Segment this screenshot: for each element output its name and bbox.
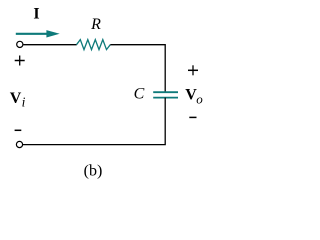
label Vi (input voltage) (10, 90, 26, 110)
wire top-right (110, 45, 165, 92)
label I (current) (33, 6, 39, 23)
wire top-left (23, 44, 76, 46)
caption (b) (84, 163, 103, 180)
svg-text:o: o (196, 91, 203, 106)
wire right-bottom (23, 98, 165, 145)
capacitor C (153, 92, 178, 97)
label C (134, 86, 145, 103)
resistor R (77, 40, 111, 50)
terminal top-left (17, 41, 23, 47)
polarity - (output) (189, 116, 196, 118)
svg-text:V: V (10, 90, 22, 107)
polarity + (output) (188, 65, 198, 75)
current arrow (16, 30, 60, 37)
svg-text:(b): (b) (84, 163, 103, 180)
polarity - (input) (15, 129, 22, 131)
svg-text:R: R (90, 16, 101, 33)
svg-text:i: i (22, 94, 26, 109)
label Vo (output voltage) (185, 87, 203, 107)
label R (90, 16, 101, 33)
terminal bottom-left (16, 141, 22, 147)
polarity + (input) (15, 56, 25, 66)
svg-text:C: C (134, 86, 145, 103)
svg-text:I: I (33, 6, 39, 23)
